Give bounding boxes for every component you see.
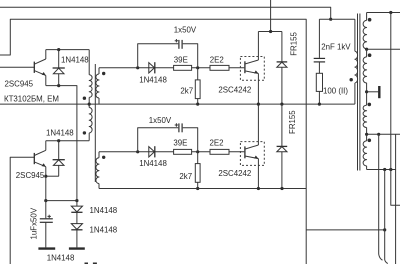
svg-text:2nF 1kV: 2nF 1kV: [321, 43, 351, 52]
node junction wireA to net P: [329, 18, 332, 21]
wire channel-2 main: [99, 151, 244, 153]
node diode chain junction: [75, 199, 78, 202]
wire channel-2 return long loop (left stub, top run, right drop, bottom tap): [0, 19, 306, 264]
transformer T1 right winding Wb: [96, 152, 99, 189]
node tap4 drop a: [383, 168, 386, 171]
wire bottom tap to rectifier column: [306, 229, 385, 231]
svg-text:FR155: FR155: [288, 110, 297, 134]
transformer T1 left winding Lb: [89, 108, 92, 141]
wire secondary tap 2: [367, 48, 400, 50]
svg-text:1N4148: 1N4148: [139, 75, 167, 84]
transformer T2 secondary winding S3: [363, 105, 367, 134]
label bottom partial text: [85, 263, 89, 264]
phase dot S2: [368, 53, 372, 57]
ground G1: [38, 247, 55, 249]
node R2 bottom: [196, 103, 199, 106]
wire Q1 collector top run: [46, 49, 89, 51]
svg-text:1N4148: 1N4148: [139, 159, 167, 168]
transformer T1 right winding Wa: [96, 68, 99, 104]
svg-text:2SC4242: 2SC4242: [218, 169, 251, 178]
wire right bus 2 segment: [395, 134, 397, 169]
resistor R3 2E2 channel-1: [210, 65, 229, 70]
node D1 anode junction: [57, 84, 60, 87]
wire rectifier drop b with bottom bend: [385, 170, 388, 264]
svg-text:КТ3102БМ, ЕМ: КТ3102БМ, ЕМ: [4, 94, 59, 103]
svg-text:2E2: 2E2: [210, 139, 224, 148]
wire Q2 collector top run: [46, 140, 89, 142]
svg-text:2SC945: 2SC945: [16, 171, 45, 180]
svg-text:FR155: FR155: [290, 32, 299, 56]
svg-text:1x50V: 1x50V: [174, 26, 197, 35]
resistor R2 2k7 channel-1: [195, 68, 200, 104]
svg-text:2k7: 2k7: [180, 86, 193, 95]
ground G2: [69, 247, 85, 249]
diode D2 1N4148 across Q2: [53, 141, 65, 177]
node tap1 junction: [389, 11, 392, 14]
node S1 bottom: [365, 48, 368, 51]
resistor R5 2k7 channel-2: [195, 152, 200, 189]
node cap branch junction: [44, 199, 47, 202]
node A1: [136, 66, 139, 69]
resistor R1 39E channel-1: [174, 65, 192, 70]
svg-text:1x50V: 1x50V: [149, 116, 172, 125]
svg-text:2E2: 2E2: [210, 55, 224, 64]
phase dot S1: [368, 18, 372, 22]
node R7 bottom: [318, 103, 321, 106]
resistor R6 2E2 channel-2: [210, 149, 229, 154]
node tap3 drop: [377, 133, 380, 136]
svg-text:1N4148: 1N4148: [61, 56, 89, 65]
wire channel-1 main: [99, 67, 244, 69]
transformer T2 secondary winding S1: [363, 13, 367, 50]
svg-text:1N4148: 1N4148: [47, 253, 75, 262]
node junction at 384.9,229.9: [383, 228, 386, 231]
transistor Q1 2SC945: [34, 50, 46, 86]
node Q4 emitter: [257, 187, 260, 190]
wire Q2 emitter stub to D2 anode: [46, 175, 59, 177]
node A2: [136, 150, 139, 153]
node D8 anode: [280, 187, 283, 190]
node R5 bottom: [196, 187, 199, 190]
node B2: [196, 150, 199, 153]
phase dot Wb: [102, 156, 105, 159]
phase dot primary: [350, 78, 353, 81]
node D1 cathode junction: [57, 48, 60, 51]
node B1: [196, 66, 199, 69]
diode D1 1N4148 across Q1: [53, 50, 65, 86]
transformer T2 secondary winding S4: [363, 134, 366, 169]
node top joint: [269, 30, 272, 33]
capacitor C3 1uFx50V: [40, 201, 53, 248]
wire secondary tap 3: [367, 133, 400, 135]
transformer T1 core: [94, 64, 96, 182]
svg-text:1N4148: 1N4148: [90, 226, 118, 235]
capacitor C2 1x50V channel-2: [138, 123, 198, 152]
terminal stub S2 bottom: [367, 86, 380, 98]
diode D6 1N4148 channel-2: [149, 146, 155, 157]
node La bottom to return rail: [88, 103, 91, 106]
phase dot Lb: [83, 131, 86, 134]
phase dot S4: [368, 139, 372, 143]
node Q3 emitter on return rail: [257, 103, 260, 106]
svg-text:2k7: 2k7: [179, 172, 192, 181]
wire net P top run: [319, 18, 355, 20]
svg-text:1uFx50V: 1uFx50V: [29, 207, 38, 239]
transformer T2 secondary winding S2: [363, 49, 366, 105]
wire T2 base feed from bottom edge: [10, 157, 34, 264]
transistor Q4 2SC4242: [240, 142, 264, 189]
node D7 anode on return rail: [280, 103, 283, 106]
wire Q1 emitter rail: [46, 86, 77, 201]
capacitor C4 2nF 1kV: [314, 19, 325, 73]
wire top rail A (net P feed): [0, 7, 331, 19]
phase dot La: [83, 97, 86, 100]
wire rectifier drop a with bottom bend: [379, 134, 383, 260]
node D2 cathode junction: [57, 139, 60, 142]
node Q2 emitter junction: [44, 175, 47, 178]
svg-text:1N4148: 1N4148: [90, 206, 118, 215]
wire channel-2 return rail: [99, 188, 306, 190]
svg-text:1N4148: 1N4148: [46, 128, 74, 137]
wire lower common node: [46, 200, 77, 202]
wire secondary tap 4: [367, 170, 396, 264]
svg-text:2SC4242: 2SC4242: [218, 85, 251, 94]
node tap4 cross: [389, 168, 392, 171]
phase dot Wa: [102, 72, 105, 75]
phase dot S3: [368, 103, 372, 107]
wire secondary tap 1: [367, 12, 400, 14]
transistor Q2 2SC945: [34, 141, 46, 201]
diode D8 FR155 channel-2: [277, 104, 288, 188]
node terminal junction: [365, 90, 368, 93]
svg-text:39E: 39E: [174, 55, 188, 64]
transformer T1 left winding La: [89, 50, 92, 108]
node tap3 left: [365, 133, 368, 136]
diode D7 FR155 channel-1: [277, 32, 288, 105]
diode D5 1N4148 channel-1: [149, 62, 155, 73]
svg-text:39E: 39E: [173, 139, 187, 148]
transformer T2 core: [358, 14, 360, 171]
svg-text:100 (II): 100 (II): [323, 87, 348, 96]
wire T1 base from left edge: [0, 66, 34, 68]
svg-text:2SC945: 2SC945: [5, 80, 34, 89]
transistor Q3 2SC4242: [240, 32, 264, 146]
wire channel-1 top joint: [258, 31, 282, 33]
wire channel-1 return rail: [0, 103, 355, 105]
resistor R7 100: [316, 73, 322, 104]
diode D4 1N4148 series: [71, 224, 82, 248]
wire right bus 1: [391, 13, 400, 206]
capacitor C1 1x50V channel-1: [138, 39, 198, 68]
resistor R4 39E channel-2: [174, 149, 192, 154]
transformer T2 primary winding: [355, 19, 358, 104]
wire feed from top edge: [270, 0, 272, 32]
diode D3 1N4148 series: [71, 201, 82, 224]
